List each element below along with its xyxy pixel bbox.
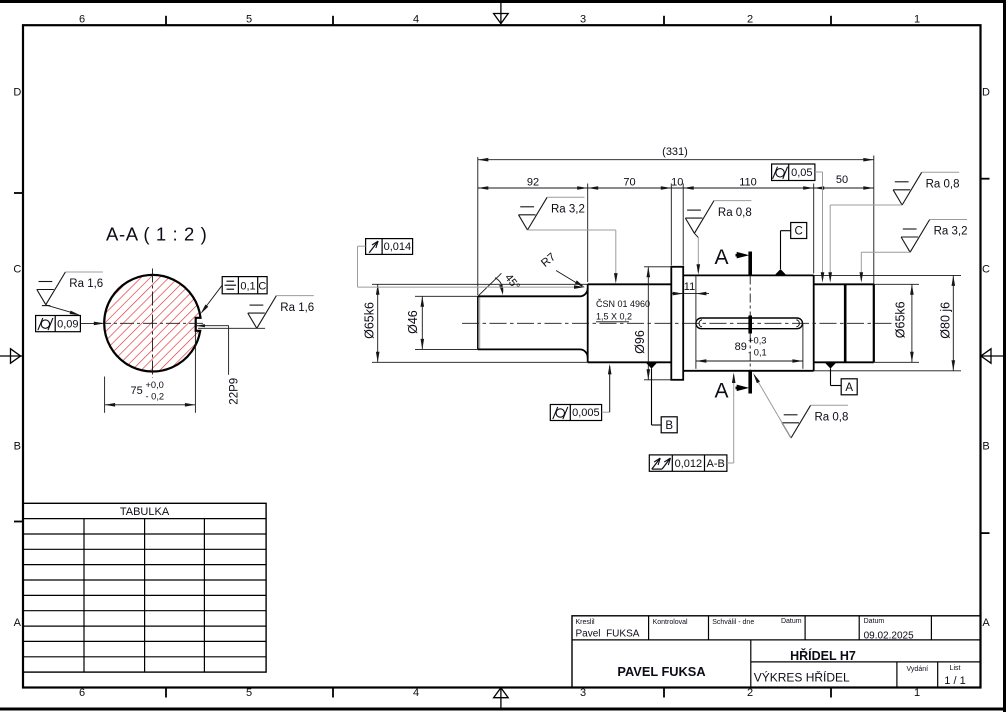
svg-text:10: 10 (671, 176, 683, 188)
surface finish Ra 0,8 over keyway (685, 201, 751, 275)
svg-text:- 0,1: - 0,1 (748, 348, 767, 358)
svg-text:75: 75 (131, 385, 143, 397)
svg-text:0,014: 0,014 (384, 241, 412, 253)
surface finish Ra 1,6 left (37, 272, 103, 315)
svg-text:Ra 0,8: Ra 0,8 (926, 179, 960, 191)
section view centerline vertical (152, 269, 154, 379)
svg-text:5: 5 (246, 687, 252, 699)
svg-text:22P9: 22P9 (229, 378, 241, 405)
circular runout frame 0,014 (358, 239, 585, 289)
svg-text:5: 5 (246, 14, 252, 26)
datum C (775, 223, 807, 276)
svg-text:Ø46: Ø46 (406, 310, 420, 334)
surface finish Ra 3,2 left (519, 197, 618, 283)
svg-text:Ra 3,2: Ra 3,2 (551, 204, 585, 216)
main centerline (462, 322, 896, 324)
svg-text:50: 50 (836, 174, 848, 186)
dimension Ø65k6 right (874, 284, 919, 362)
section cutting line A-A (736, 252, 751, 394)
dimension Ø80 j6 (814, 275, 961, 370)
dimension (331) (478, 146, 874, 295)
svg-text:Datum: Datum (781, 618, 802, 625)
svg-text:(331): (331) (662, 146, 688, 158)
zone division ticks left and right (14, 179, 990, 533)
section circle with keyway, red hatching (104, 275, 200, 372)
svg-text:Datum: Datum (864, 618, 885, 625)
svg-text:A: A (982, 617, 990, 629)
zone division ticks top and bottom (166, 16, 831, 698)
svg-text:2: 2 (747, 14, 753, 26)
svg-text:+0,0: +0,0 (146, 380, 164, 390)
svg-text:1: 1 (914, 14, 920, 26)
svg-text:A: A (845, 382, 853, 394)
shaft segment Ø80 outline (683, 275, 814, 370)
total runout frame 0,012 A-B (649, 373, 735, 472)
svg-text:C: C (258, 280, 266, 292)
shaft segment Ø46 outline (478, 288, 588, 357)
svg-text:B: B (14, 441, 21, 453)
centering mark bottom (494, 688, 509, 708)
outer border top bar (0, 0, 1006, 3)
svg-text:B: B (982, 441, 989, 453)
outer border bottom bar (0, 708, 1006, 711)
svg-text:Pavel FUKSA: Pavel FUKSA (576, 629, 640, 640)
cylindricity frame 0,09 (36, 316, 105, 332)
svg-text:TABULKA: TABULKA (120, 506, 170, 518)
shaft segment Ø65k6 left outline (588, 284, 672, 362)
section A-A title (106, 224, 207, 245)
svg-text:Vydání: Vydání (907, 666, 929, 673)
svg-text:- 0,2: - 0,2 (146, 391, 165, 401)
svg-text:3: 3 (580, 14, 586, 26)
surface finish Ra 1,6 right (248, 296, 314, 329)
svg-text:Ra 1,6: Ra 1,6 (280, 302, 314, 314)
svg-text:4: 4 (413, 687, 419, 699)
svg-text:2: 2 (747, 687, 753, 699)
section label A bottom (715, 380, 729, 403)
svg-text:D: D (13, 87, 21, 99)
dimension 89 +0,3/-0,1 (696, 324, 803, 369)
svg-text:0,012: 0,012 (675, 458, 703, 470)
svg-text:0,1: 0,1 (240, 280, 255, 292)
title block (572, 616, 981, 688)
flange Ø96 outline (671, 267, 683, 380)
svg-text:Ø65k6: Ø65k6 (363, 302, 377, 339)
svg-text:B: B (665, 420, 673, 432)
svg-text:Ra 0,8: Ra 0,8 (815, 412, 849, 424)
dimension Ø65k6 left (363, 284, 380, 362)
svg-text:0,05: 0,05 (791, 167, 812, 179)
svg-text:Ø96: Ø96 (633, 330, 647, 354)
datum B (646, 363, 677, 433)
svg-text:70: 70 (623, 176, 635, 188)
svg-text:6: 6 (79, 14, 85, 26)
section view centerline horizontal (97, 322, 204, 324)
svg-text:3: 3 (580, 687, 586, 699)
section label A top (715, 246, 729, 269)
svg-text:1,5 X 0,2: 1,5 X 0,2 (596, 312, 632, 322)
svg-text:0,09: 0,09 (57, 318, 78, 330)
svg-text:List: List (950, 665, 961, 672)
symmetry frame 0,1 C (201, 277, 268, 314)
dimension 11 (671, 275, 709, 368)
dimension Ø96 (633, 267, 671, 380)
datum A (825, 363, 857, 395)
svg-text:Ra 3,2: Ra 3,2 (934, 226, 968, 238)
dimension 75 +0,0/-0,2 (105, 332, 196, 413)
keyway width label 22P9 (196, 324, 265, 405)
svg-text:C: C (795, 226, 803, 238)
centering mark right (981, 349, 1003, 363)
extension lines for left Ø65k6 (372, 284, 588, 362)
outer border right bar (1003, 0, 1006, 712)
svg-text:Schválil - dne: Schválil - dne (712, 619, 754, 626)
note CSN 01 4960 undercut (596, 299, 650, 322)
svg-text:A: A (14, 617, 22, 629)
svg-text:A: A (715, 246, 729, 269)
cylindricity frame 0,05 (772, 164, 825, 283)
svg-text:1: 1 (914, 687, 920, 699)
dimension Ø46 (406, 296, 478, 349)
svg-text:A-B: A-B (707, 458, 725, 470)
table TABULKA (23, 503, 266, 672)
chamfer 45 deg callout (478, 272, 522, 296)
svg-text:09.02.2025: 09.02.2025 (864, 631, 914, 642)
svg-text:11: 11 (684, 281, 695, 293)
svg-text:Ra 1,6: Ra 1,6 (69, 278, 103, 290)
svg-text:Ø65k6: Ø65k6 (894, 301, 908, 338)
svg-text:0,005: 0,005 (572, 407, 600, 419)
svg-text:110: 110 (739, 176, 757, 188)
dimension chain 92 70 10 110 50 (478, 174, 874, 282)
svg-text:Kontroloval: Kontroloval (653, 619, 688, 626)
centering mark top (494, 3, 509, 24)
shaft segment Ø65k6 right outline (814, 284, 874, 362)
zone letters A-D (13, 87, 990, 629)
svg-text:Ø80 j6: Ø80 j6 (938, 302, 952, 339)
svg-text:ČSN 01 4960: ČSN 01 4960 (596, 299, 650, 309)
svg-text:92: 92 (527, 176, 539, 188)
surface finish Ra 3,2 right (860, 220, 968, 283)
svg-text:Kreslil: Kreslil (576, 619, 596, 626)
svg-text:VÝKRES HŘÍDEL: VÝKRES HŘÍDEL (754, 670, 850, 685)
svg-text:6: 6 (79, 687, 85, 699)
svg-text:C: C (13, 264, 21, 276)
surface finish Ra 0,8 keyway (753, 373, 848, 438)
svg-text:HŘÍDEL H7: HŘÍDEL H7 (790, 648, 856, 663)
svg-text:A: A (715, 380, 729, 403)
centering mark left (0, 349, 22, 363)
svg-text:A-A ( 1 : 2 ): A-A ( 1 : 2 ) (106, 224, 207, 245)
cylindricity frame 0,005 (550, 364, 611, 421)
svg-text:+0,3: +0,3 (748, 336, 766, 346)
svg-text:PAVEL FUKSA: PAVEL FUKSA (617, 664, 705, 679)
svg-text:1 / 1: 1 / 1 (944, 675, 965, 687)
svg-text:89: 89 (735, 341, 747, 353)
svg-text:C: C (982, 264, 990, 276)
svg-text:D: D (982, 87, 990, 99)
radius R7 callout (539, 251, 585, 287)
surface finish Ra 0,8 top right (828, 172, 959, 282)
svg-text:Ra 0,8: Ra 0,8 (718, 207, 752, 219)
keyway slot on shaft (696, 318, 803, 329)
svg-text:4: 4 (413, 14, 419, 26)
